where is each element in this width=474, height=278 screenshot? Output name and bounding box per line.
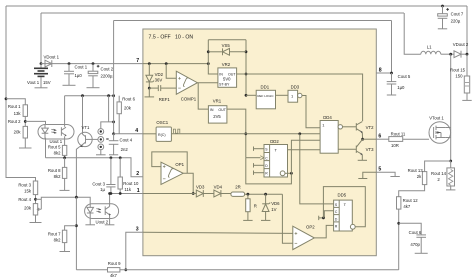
svg-text:DD5: DD5 (338, 192, 347, 197)
svg-text:COMP1: COMP1 (181, 96, 197, 101)
node VD5 right (245, 50, 248, 53)
ground Rout14 (446, 189, 455, 191)
node VD6 top (264, 193, 267, 196)
svg-text:2V5: 2V5 (213, 114, 221, 119)
capacitor Cout6 (399, 223, 426, 253)
wire connector top up (101, 122, 114, 129)
svg-text:2n2: 2n2 (121, 147, 129, 152)
node battery plus junction (40, 62, 43, 65)
svg-text:Cout 4: Cout 4 (120, 138, 133, 143)
ground REF (145, 96, 155, 98)
wire COMP1 out to ST-BY (197, 82, 218, 84)
diode VD5 (208, 48, 246, 55)
capacitor Cout3 (106, 158, 115, 194)
wire DD2 C arrow (260, 156, 264, 160)
svg-text:REF LOGIC: REF LOGIC (257, 94, 274, 98)
optocoupler Uout2 (85, 204, 119, 219)
resistor Rout3 (33, 181, 37, 195)
ground Rout8 (60, 189, 70, 191)
wire pin7 rail into IC (already drawn) (118, 133, 120, 135)
logic block DD4 (320, 121, 342, 154)
inductor L1 (421, 51, 441, 54)
ground VD6 (261, 219, 270, 221)
wire feedback rail y157.8 (46, 158, 143, 177)
capacitor Cout1 (64, 64, 74, 86)
svg-text:Rout 7: Rout 7 (48, 231, 61, 236)
resistor Rout13 (422, 172, 426, 185)
svg-text:VDout 2: VDout 2 (453, 42, 469, 47)
ground Rout2 (19, 147, 32, 149)
svg-text:VD4: VD4 (214, 184, 223, 189)
capacitor Cout7 electrolytic (438, 6, 449, 29)
capacitor Cout2 electrolytic (88, 64, 99, 88)
svg-text:8k2: 8k2 (54, 150, 62, 155)
node DD2 out split (290, 172, 293, 175)
wire VT2 emitter to node (361, 132, 363, 139)
node source junction (449, 160, 452, 163)
op-amp OP2 (293, 226, 315, 249)
trigger DD2 (264, 145, 288, 178)
wire Rout13 to Rout12 (399, 185, 425, 197)
node Rout5 bottom (63, 156, 66, 159)
svg-text:VR1: VR1 (213, 99, 222, 104)
node OP1 out on pin1 rail (192, 192, 195, 195)
wire source node to Rout13 (425, 161, 451, 172)
resistor Rout1 (23, 105, 27, 117)
capacitor Cout4 (109, 134, 119, 155)
resistor Rout7 (62, 226, 76, 252)
svg-text:Vout 1: Vout 1 (27, 80, 40, 85)
svg-text:Rout 3: Rout 3 (18, 183, 31, 188)
svg-text:DD3: DD3 (291, 85, 300, 90)
node VD2 top (148, 62, 151, 65)
wire VT3 emitter ground (361, 155, 363, 161)
svg-text:Rout 1: Rout 1 (8, 104, 21, 109)
svg-text:L1: L1 (427, 44, 432, 49)
svg-text:2200µ: 2200µ (101, 74, 114, 79)
logic block DD1 (256, 90, 275, 109)
ground Rout7 (60, 251, 71, 253)
node Cout7 tap (441, 5, 444, 8)
node Rout10 top (119, 156, 122, 159)
node pin4 junction (112, 132, 115, 135)
resistor Rout5 (62, 139, 66, 158)
ground Cout5 (387, 94, 396, 96)
wire MOSFET source stub (445, 137, 450, 139)
wire border to Rout1 (6, 99, 25, 105)
svg-text:Uout 1: Uout 1 (50, 139, 63, 144)
connector pad middle (98, 137, 104, 143)
op-amp COMP1 (176, 71, 197, 94)
node MOSFET drain junction (449, 53, 452, 56)
svg-text:8k2: 8k2 (54, 237, 62, 242)
ground Uout2 emitter (105, 224, 115, 226)
logic inverter DD3 (288, 90, 302, 102)
wire OSC to DD5 S (300, 134, 334, 204)
wire main input rail y63.6 (41, 63, 143, 65)
svg-text:20k: 20k (24, 205, 32, 210)
wire riser x76 down to bottom rail (75, 197, 77, 270)
wire VD5 loop top (208, 39, 246, 41)
wire pin1 rail left of IC (110, 193, 143, 195)
wire left border down to divider (6, 6, 36, 181)
wire x108 drop to pad rail (108, 96, 110, 122)
wire COMP1 plus input (166, 64, 176, 79)
node Uout2 collector (108, 192, 111, 195)
wire battery bottom to ground (40, 77, 42, 88)
oscillator OSC1 (156, 127, 171, 141)
resistor Rout10 (118, 158, 122, 194)
svg-text:2R: 2R (235, 184, 241, 189)
svg-text:4k7: 4k7 (110, 273, 118, 278)
svg-text:R: R (254, 204, 257, 209)
resistor Rout8 (62, 158, 66, 191)
wire tap rail y197.2 (41, 197, 90, 204)
node Cout1 tap (68, 62, 71, 65)
wire Rout12 to bottom (398, 209, 400, 270)
svg-text:470p: 470p (410, 242, 420, 247)
node R top (247, 193, 250, 196)
wire VD5 loop right riser (245, 40, 247, 96)
wire DD5 C input loop (319, 211, 334, 218)
wire OP1 plus hysteresis loop (152, 152, 187, 173)
transistor VT3 (356, 139, 362, 155)
svg-text:Uout 2: Uout 2 (96, 220, 109, 225)
node VD2 bottom (148, 87, 151, 90)
wire DD4 out2 to VT3 base (338, 148, 356, 150)
wire L1 to diode (441, 53, 454, 55)
svg-text:Rout 14: Rout 14 (431, 171, 447, 176)
ground R (243, 219, 252, 221)
svg-text:DD1: DD1 (261, 85, 270, 90)
wire DD5 Qbar feedback loop (323, 187, 365, 227)
svg-text:OP2: OP2 (306, 225, 315, 230)
svg-text:220µ: 220µ (451, 18, 461, 23)
wire divider2 tap to Uout2 LED (36, 198, 42, 200)
node VD5 left (207, 50, 210, 53)
wire right border from top to Rout15 (466, 6, 468, 55)
svg-text:DD4: DD4 (323, 115, 332, 120)
svg-text:4: 4 (135, 128, 138, 134)
svg-text:Rout 4: Rout 4 (18, 197, 31, 202)
svg-text:=: = (106, 137, 109, 143)
wire pin4 to OSC1 (143, 133, 156, 135)
wire DD2 R stub (254, 171, 265, 175)
svg-text:Rout 5: Rout 5 (48, 145, 61, 150)
wire pin6 out (363, 138, 377, 140)
svg-text:5V0: 5V0 (223, 76, 231, 81)
wire DD2 toggle loop (246, 158, 292, 184)
svg-text:4k7: 4k7 (403, 204, 411, 209)
svg-text:REF1: REF1 (159, 97, 171, 102)
node rail95 VT1 (81, 94, 84, 97)
wire DD5 C stub bar (318, 216, 320, 220)
diode VDout2 (454, 51, 467, 58)
svg-text:OSC1: OSC1 (156, 120, 168, 125)
ground Cout6 (415, 252, 428, 254)
wire Rout4 ground (35, 215, 37, 223)
capacitor REF1 (149, 85, 176, 91)
node DD5 C (322, 217, 325, 220)
wire DD2 Qbar out (285, 172, 291, 174)
transistor VT2 (356, 122, 362, 134)
wire top output rail (6, 5, 467, 7)
battery Vout1 (34, 68, 48, 76)
ground Cout7 (438, 28, 447, 30)
svg-text:VD2: VD2 (155, 72, 164, 77)
node output rail diode (466, 53, 469, 56)
svg-text:1V: 1V (271, 207, 276, 212)
node rail95 x113 (112, 94, 115, 97)
wire riser battery to rail13 (40, 13, 42, 64)
ground connector (96, 154, 106, 156)
wire LED cathode down (45, 138, 47, 158)
wire rail y20.5 (114, 20, 392, 22)
wire MOSFET drain stub (445, 127, 450, 129)
svg-text:Rout 8: Rout 8 (48, 168, 61, 173)
wire VD6 rail to OP2 minus (282, 194, 292, 243)
wire Rout1 to Rout2 (24, 116, 26, 126)
svg-text:7.5 - OFF 10 - ON: 7.5 - OFF 10 - ON (149, 35, 194, 41)
svg-text:1µ: 1µ (100, 187, 105, 192)
transistor VTout1 MOSFET (429, 122, 451, 144)
node rail95 x108 (107, 94, 110, 97)
wire OP1 output (183, 173, 193, 193)
wire pin3 from bottom rail (126, 232, 143, 270)
svg-text:10R: 10R (391, 143, 399, 148)
svg-text:Rout 10: Rout 10 (123, 181, 139, 186)
ground pin5 inside (358, 178, 367, 180)
node Cout6 tap (397, 222, 400, 225)
trigger DD5 (334, 200, 356, 231)
wire pin1 rail inside (143, 193, 196, 195)
wire DD2 S stub (254, 147, 265, 151)
wire DD4 out1 to VT2 base (343, 126, 357, 128)
wire Uout2 collector up to pin1 rail (109, 194, 111, 204)
resistor Rout4 trimmer (33, 199, 41, 215)
diode VD3 (196, 190, 214, 197)
wire Rout2 to ground (24, 138, 26, 148)
node Cout3 top (110, 156, 113, 159)
wire pin5 inside (363, 172, 377, 178)
svg-text:VTout 1: VTout 1 (429, 115, 444, 120)
wire pin4 into IC (114, 133, 143, 135)
diode VD4 (214, 190, 231, 197)
svg-text:OP1: OP1 (175, 162, 184, 167)
node Rout7 tap (75, 224, 78, 227)
wire OP2 out to DD5 R (314, 225, 333, 238)
resistor Rout14 zigzag (447, 161, 455, 190)
wire connector bottom ground (100, 150, 102, 155)
svg-text:DD2: DD2 (270, 139, 279, 144)
ground Cout4 (109, 154, 118, 156)
resistor Rout6 (117, 96, 121, 134)
wire DD2 C input (246, 157, 261, 159)
zener VD2 (146, 64, 154, 89)
wire VD5 loop left riser (208, 40, 218, 74)
node Rout10 bottom (119, 192, 122, 195)
pulse symbol (173, 129, 179, 133)
svg-text:VT2: VT2 (366, 125, 374, 130)
svg-text:Rout 15: Rout 15 (450, 67, 466, 72)
ground VT3 (358, 159, 367, 161)
svg-text:15k: 15k (24, 188, 32, 193)
wire DD1 to DD3 (276, 94, 289, 96)
svg-text:VT3: VT3 (366, 147, 374, 152)
voltage regulator VR1 (208, 106, 227, 123)
ground battery (35, 87, 48, 89)
node rail197 x76 (75, 196, 78, 199)
svg-text:Cout 5: Cout 5 (398, 74, 411, 79)
node VR2 in riser (207, 62, 210, 65)
svg-text:Cout 2: Cout 2 (101, 66, 114, 71)
svg-text:Rout 11: Rout 11 (391, 131, 406, 136)
wire DD1 input (246, 94, 256, 96)
wire VR1 out down to DD2 C (227, 109, 246, 158)
svg-text:Cout 7: Cout 7 (451, 11, 464, 16)
node pin3 bottom junction (124, 268, 127, 271)
wire VT1 emitter down to long riser (76, 147, 80, 198)
ground Rout4 (30, 222, 42, 224)
node Cout3 bottom (110, 192, 113, 195)
svg-text:15V: 15V (43, 80, 51, 85)
resistor Rout11 (376, 137, 429, 142)
wire rail20 left riser (113, 21, 115, 96)
wire bottom rail (76, 269, 398, 271)
svg-text:20k: 20k (124, 106, 132, 111)
ground Uout2 LED (85, 224, 95, 226)
wire DD2 Qbar to DD4 input3 (291, 140, 320, 173)
wire Uout2 emitter ground (109, 219, 111, 225)
wire OSC out rail (171, 133, 320, 135)
wire VD2 to ground (148, 88, 150, 97)
node x113 y121 (112, 121, 115, 124)
svg-text:VD3: VD3 (196, 184, 205, 189)
ground pin5 (390, 176, 399, 178)
wire VT1 collector up (82, 96, 84, 135)
svg-text:VD6: VD6 (271, 201, 280, 206)
node Cout5 (390, 72, 393, 75)
zener VD6 (262, 194, 270, 220)
node DD1 input (245, 94, 248, 97)
ground Rout15 (462, 99, 471, 101)
svg-text:Rout 13: Rout 13 (408, 168, 424, 173)
wire DD3 out to DD4 input1 (302, 96, 320, 128)
svg-text:Cout 1: Cout 1 (75, 64, 88, 69)
svg-text:OUT: OUT (218, 108, 226, 112)
wire COMP1 out tap to VR1 (198, 83, 208, 109)
svg-text:Rout 9: Rout 9 (108, 261, 121, 266)
svg-text:1: 1 (137, 188, 140, 194)
resistor Rout12 (397, 197, 401, 209)
wire pin3 to OP2 plus (143, 232, 293, 233)
node border to Rout1 (5, 97, 8, 100)
diode VDout1 (45, 60, 52, 67)
node divider2 tap (34, 198, 37, 201)
svg-text:VT1: VT1 (82, 125, 90, 130)
wire tap to LED Uout1 (25, 121, 45, 126)
resistor Rout15 (464, 54, 469, 100)
svg-text:Rout 6: Rout 6 (122, 97, 135, 102)
svg-text:6: 6 (378, 133, 381, 139)
svg-text:36V: 36V (155, 77, 163, 82)
wire DD2 Q to DD4 input4 (288, 149, 321, 151)
op-amp controller IC body (beige) (143, 29, 376, 256)
wire L1 feed riser (404, 13, 421, 54)
svg-text:2: 2 (136, 171, 139, 177)
wire input top rail y13 (41, 12, 404, 14)
voltage regulator VR2 (218, 68, 237, 87)
svg-text:Cout 6: Cout 6 (409, 230, 422, 235)
node OSC DD5 riser (298, 132, 301, 135)
resistor 2R horizontal (231, 192, 283, 196)
svg-text:13k: 13k (14, 111, 22, 116)
svg-text:11k: 11k (124, 187, 131, 192)
svg-text:20k: 20k (14, 130, 22, 135)
connector pad top (98, 129, 104, 135)
resistor Rout2 (23, 126, 27, 138)
svg-text:ST-BY: ST-BY (219, 83, 230, 87)
connector pad bottom (98, 144, 104, 150)
resistor R (246, 194, 250, 220)
wire pin8 out (376, 72, 391, 74)
wire riser x113 from rail20 to pin4 (113, 96, 115, 134)
svg-text:VS5: VS5 (222, 43, 231, 48)
svg-text:VDout 1: VDout 1 (44, 54, 60, 59)
op-amp OP1 (161, 162, 183, 184)
optocoupler Uout1 (38, 125, 74, 140)
wire Uout2 LED ground (89, 219, 91, 225)
svg-text:Rout 12: Rout 12 (403, 198, 419, 203)
wire pin5 outside (376, 172, 395, 176)
svg-text:3: 3 (136, 227, 139, 233)
wire VR2 out rail to VT2 supply (237, 74, 363, 121)
wire Rout3 to Rout4 (35, 195, 37, 204)
node COMP1 plus riser (165, 62, 168, 65)
svg-text:1µ0: 1µ0 (397, 85, 405, 90)
svg-text:VR2: VR2 (222, 62, 231, 67)
svg-text:8k2: 8k2 (54, 174, 62, 179)
node OSC rail VR1 (244, 132, 247, 135)
wire rail95 corner down to opto (64, 96, 66, 125)
transistor VT1 (78, 132, 98, 147)
svg-text:Rout 2: Rout 2 (8, 119, 21, 124)
ground Cout1 (63, 84, 76, 86)
svg-text:1µ0: 1µ0 (75, 73, 83, 78)
svg-text:IN: IN (210, 108, 214, 112)
resistor Rout9 (108, 268, 120, 272)
svg-text:7: 7 (136, 58, 139, 64)
ground Cout2 (87, 87, 100, 89)
wire battery top stub (40, 64, 42, 68)
svg-text:R(C): R(C) (158, 133, 166, 137)
svg-text:150: 150 (455, 73, 463, 78)
svg-text:Cout 3: Cout 3 (92, 181, 105, 186)
wire rail y95.7 (65, 95, 114, 97)
wire MOSFET drain-source rail (450, 54, 452, 161)
wire pin7 rail inside (143, 63, 208, 65)
node Cout2 tap (92, 62, 95, 65)
capacitor Cout5 (387, 73, 397, 95)
wire rail20 right riser to pin8 (391, 21, 393, 74)
wire DD2 D stub (254, 163, 265, 167)
node VT2 VT3 junction (361, 138, 364, 141)
node divider tap upper (24, 120, 27, 123)
node VR2 out (245, 73, 248, 76)
